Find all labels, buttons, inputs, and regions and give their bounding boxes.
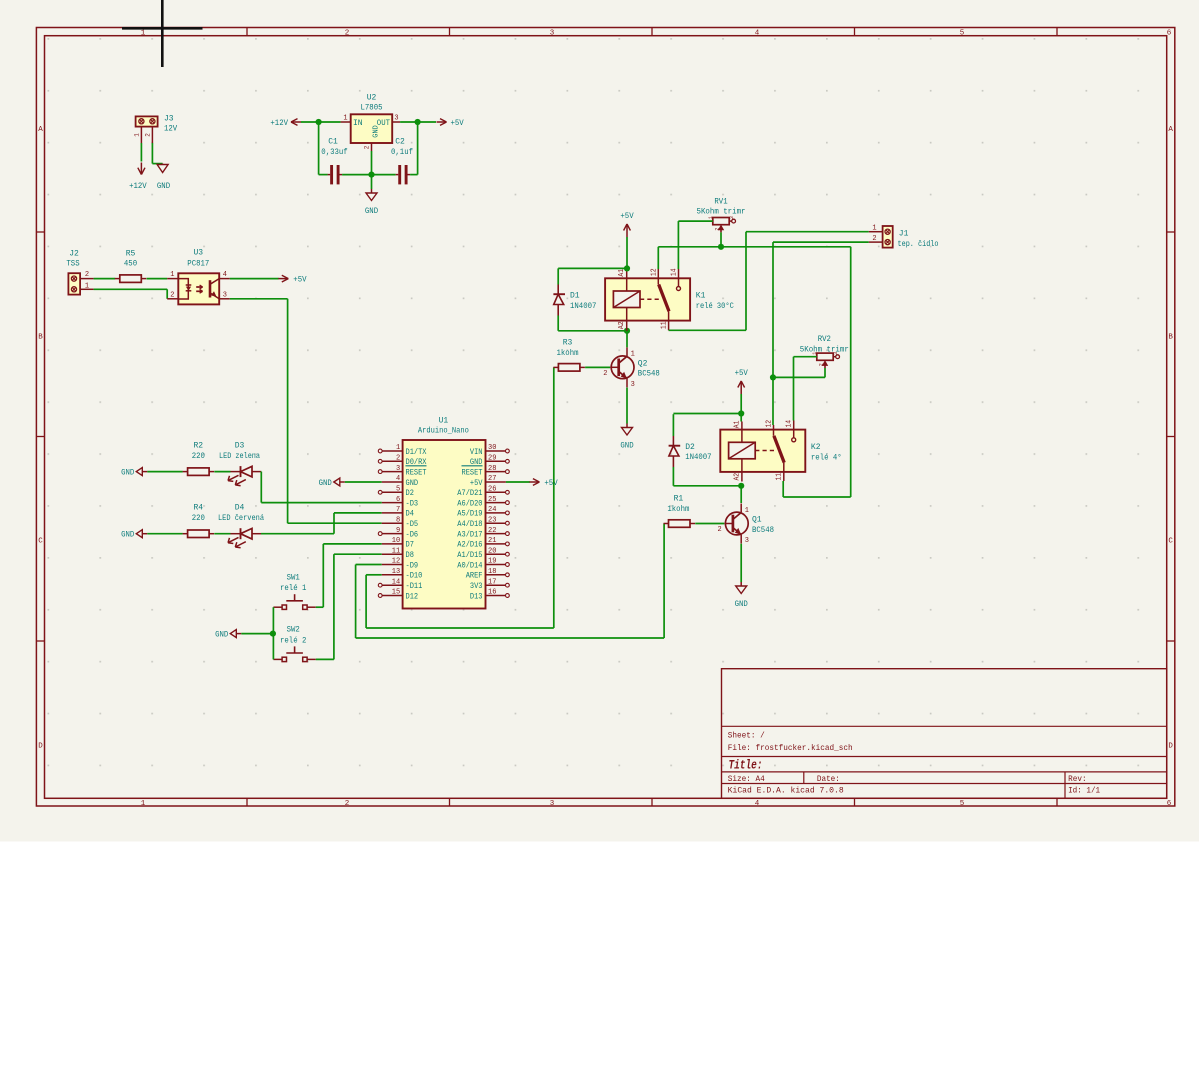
svg-text:D: D	[38, 743, 43, 751]
svg-text:3: 3	[394, 115, 398, 123]
U1 pin 11 D8	[382, 553, 403, 555]
svg-text:C1: C1	[328, 138, 338, 147]
wire	[147, 533, 182, 535]
wire	[371, 151, 373, 175]
junction	[718, 244, 724, 250]
wire	[557, 316, 559, 331]
svg-text:3: 3	[550, 29, 555, 37]
connector J3	[136, 116, 158, 126]
connector J2	[68, 273, 80, 294]
K1 pin 14	[678, 269, 680, 278]
wire	[506, 481, 530, 483]
svg-text:1: 1	[396, 444, 400, 452]
svg-text:+12V: +12V	[129, 182, 147, 191]
U3 pin 4	[219, 278, 230, 280]
wire	[365, 575, 367, 628]
svg-text:RV1: RV1	[714, 197, 727, 206]
wire	[782, 481, 784, 497]
svg-text:2: 2	[364, 146, 371, 150]
svg-text:-D10: -D10	[406, 572, 423, 581]
wire	[658, 246, 850, 248]
U1 pin 20 A1/D15	[506, 552, 510, 556]
U1 pin 29 GND	[506, 459, 510, 463]
junction	[738, 410, 744, 416]
U1 pin 21 A2/D16	[506, 542, 510, 546]
svg-text:11: 11	[776, 473, 784, 481]
svg-text:A2: A2	[618, 321, 626, 329]
svg-text:220: 220	[192, 514, 205, 523]
svg-text:2: 2	[170, 291, 174, 299]
LED D4	[240, 528, 242, 539]
trimmer RV1	[713, 218, 729, 225]
wire	[673, 485, 741, 487]
wire	[626, 237, 628, 268]
svg-text:6: 6	[396, 496, 400, 504]
svg-text:PC817: PC817	[187, 260, 209, 269]
U3 pin 1	[167, 278, 178, 280]
wire	[316, 658, 334, 660]
wire	[366, 627, 554, 629]
wire	[783, 496, 851, 498]
wire	[695, 523, 724, 525]
wire	[322, 544, 324, 607]
K1 pin 11	[668, 321, 670, 331]
svg-text:Size: A4: Size: A4	[728, 775, 765, 784]
wire	[558, 267, 627, 269]
svg-text:2: 2	[714, 228, 721, 231]
wire	[745, 232, 747, 331]
svg-text:GND: GND	[319, 479, 332, 488]
wire	[272, 607, 274, 633]
svg-text:GND: GND	[215, 631, 228, 640]
svg-text:GND: GND	[372, 125, 380, 138]
K1 pin 12	[657, 269, 659, 278]
svg-text:1: 1	[631, 351, 635, 359]
resistor R4	[188, 530, 210, 538]
U1 pin 28 RESET	[506, 470, 510, 474]
K2 pin A2	[741, 472, 743, 482]
svg-text:BC548: BC548	[638, 370, 660, 379]
junction	[770, 374, 776, 380]
wire	[334, 512, 382, 514]
svg-text:11: 11	[392, 547, 400, 555]
wire	[366, 574, 382, 576]
svg-text:14: 14	[671, 268, 679, 276]
LED D3	[240, 466, 242, 477]
svg-text:1: 1	[872, 224, 876, 232]
svg-text:4: 4	[755, 29, 760, 37]
svg-text:1: 1	[141, 800, 146, 808]
U1 pin 4 GND	[382, 481, 403, 483]
wire	[214, 471, 230, 473]
U1 pin 18 AREF	[506, 573, 510, 577]
trimmer RV2	[817, 353, 833, 360]
U1 pin 19 A0/D14	[506, 563, 510, 567]
U1 pin 8 -D5	[382, 522, 403, 524]
power +12V (left arrow)	[291, 121, 301, 123]
svg-text:5: 5	[960, 29, 965, 37]
transistor Q1	[725, 512, 748, 535]
wire	[417, 122, 419, 175]
svg-text:30: 30	[488, 444, 496, 452]
K2 pin 14	[793, 421, 795, 430]
connector J1	[883, 226, 893, 248]
U1 pin 6 -D3	[382, 502, 403, 504]
svg-text:A0/D14: A0/D14	[457, 561, 482, 570]
svg-text:Q1: Q1	[752, 516, 762, 525]
svg-text:27: 27	[488, 475, 496, 483]
svg-text:GND: GND	[365, 207, 378, 216]
wire	[323, 543, 381, 545]
wire	[672, 414, 674, 436]
svg-text:A3/D17: A3/D17	[457, 530, 482, 539]
svg-text:GND: GND	[157, 182, 170, 191]
K1 pin A1	[626, 268, 628, 278]
svg-text:+5V: +5V	[735, 369, 748, 378]
wire	[657, 247, 659, 269]
switch SW1	[282, 605, 286, 609]
wire	[824, 368, 826, 377]
svg-text:12: 12	[650, 268, 658, 276]
wire	[230, 298, 288, 300]
svg-text:K1: K1	[696, 292, 706, 301]
U1 pin 17 3V3	[506, 583, 510, 587]
svg-text:VIN: VIN	[470, 448, 483, 457]
wire	[333, 513, 335, 534]
wire	[147, 471, 182, 473]
junction	[738, 483, 744, 489]
svg-text:GND: GND	[121, 469, 134, 478]
wire	[773, 376, 825, 378]
junction	[316, 119, 322, 125]
wire	[342, 174, 371, 176]
U1 pin 30 VIN	[506, 449, 510, 453]
svg-text:1kohm: 1kohm	[557, 349, 579, 358]
svg-text:26: 26	[488, 486, 496, 494]
U1 pin 13 -D10	[382, 574, 403, 576]
wire	[626, 388, 628, 424]
junction	[368, 172, 374, 178]
U1 pin 3 RESET	[378, 470, 382, 474]
svg-text:2: 2	[396, 455, 400, 463]
svg-text:3: 3	[223, 291, 227, 299]
wire	[678, 220, 712, 222]
svg-text:0,33uf: 0,33uf	[321, 148, 348, 157]
svg-text:6: 6	[1167, 800, 1172, 808]
K2 pin A1	[741, 422, 743, 430]
wire	[94, 288, 168, 290]
contact	[793, 430, 795, 438]
wire	[333, 554, 335, 659]
wire	[147, 278, 168, 280]
svg-text:Sheet: /: Sheet: /	[728, 731, 765, 740]
svg-text:D: D	[1168, 743, 1173, 751]
U1 pin 9 -D6	[378, 532, 382, 536]
svg-text:3: 3	[396, 465, 400, 473]
U3 pin 2	[167, 298, 178, 300]
wire	[287, 299, 289, 523]
border column ticks	[246, 28, 248, 36]
svg-text:1: 1	[170, 271, 174, 279]
wire	[740, 414, 742, 422]
svg-text:A: A	[1168, 126, 1173, 134]
wire	[794, 356, 817, 358]
svg-text:Q2: Q2	[638, 359, 648, 368]
J3 pin 2	[151, 127, 153, 143]
wire	[558, 330, 627, 332]
svg-text:12: 12	[392, 558, 400, 566]
power +5V (right arrow)	[437, 121, 447, 123]
svg-text:21: 21	[488, 537, 496, 545]
svg-text:relé 4°: relé 4°	[811, 453, 842, 462]
svg-text:C: C	[1168, 538, 1173, 546]
svg-text:13: 13	[392, 568, 400, 576]
power GND under Q2	[626, 424, 628, 428]
svg-text:4: 4	[223, 271, 227, 279]
svg-text:U1: U1	[439, 416, 449, 425]
U1 pin 5 D2	[378, 490, 382, 494]
svg-text:BC548: BC548	[752, 526, 774, 535]
svg-text:1: 1	[133, 133, 140, 137]
wire	[214, 533, 230, 535]
svg-text:C2: C2	[395, 138, 405, 147]
svg-text:B: B	[1168, 334, 1173, 342]
svg-text:relé 2: relé 2	[280, 636, 307, 645]
wire	[140, 143, 142, 162]
wire	[773, 241, 869, 243]
svg-text:RESET: RESET	[406, 468, 427, 477]
wire	[400, 121, 436, 123]
svg-text:GND: GND	[620, 442, 633, 451]
wire	[334, 553, 382, 555]
wire	[260, 471, 262, 473]
wire	[241, 633, 273, 635]
svg-text:A1/D15: A1/D15	[457, 551, 482, 560]
switch SW2	[282, 657, 286, 661]
J3 pin 1	[140, 127, 142, 143]
svg-text:24: 24	[488, 506, 496, 514]
svg-text:2: 2	[872, 235, 876, 243]
svg-text:D1: D1	[570, 292, 580, 301]
svg-text:D4: D4	[406, 510, 415, 519]
svg-text:AREF: AREF	[466, 572, 483, 581]
wire	[663, 524, 665, 639]
svg-text:B: B	[38, 334, 43, 342]
wire	[356, 637, 664, 639]
K2 pin 12	[773, 425, 775, 430]
svg-text:R2: R2	[193, 441, 203, 450]
U1 pin 23 A4/D18	[506, 521, 510, 525]
svg-text:D2: D2	[406, 489, 415, 498]
svg-text:LED červená: LED červená	[218, 514, 264, 523]
svg-text:1: 1	[85, 283, 89, 291]
J2 pin 2	[80, 278, 94, 280]
svg-text:+5V: +5V	[544, 479, 557, 488]
optocoupler U3	[178, 273, 219, 304]
wire	[669, 329, 746, 331]
wire	[345, 481, 382, 483]
wire	[850, 247, 852, 497]
svg-text:23: 23	[488, 516, 496, 524]
U1 pin 10 D7	[382, 543, 403, 545]
wire	[356, 564, 382, 566]
svg-text:SW2: SW2	[287, 626, 300, 635]
U1 pin 7 D4	[382, 512, 403, 514]
svg-text:A4/D18: A4/D18	[457, 520, 482, 529]
svg-text:-D3: -D3	[406, 499, 419, 508]
wire	[772, 377, 774, 425]
J1 pin 1	[869, 231, 883, 233]
svg-text:3: 3	[550, 800, 555, 808]
resistor R3	[558, 364, 580, 372]
power +12V (down arrow)	[140, 163, 142, 175]
svg-text:Arduino_Nano: Arduino_Nano	[418, 427, 469, 436]
svg-text:SW1: SW1	[287, 574, 300, 583]
svg-text:J2: J2	[69, 249, 79, 258]
svg-text:16: 16	[488, 589, 496, 597]
svg-text:File: frostfucker.kicad_sch: File: frostfucker.kicad_sch	[728, 744, 853, 753]
U1 pin 25 A6/D20	[506, 501, 510, 505]
svg-text:GND: GND	[406, 479, 419, 488]
svg-text:1: 1	[745, 507, 749, 515]
wire	[319, 174, 328, 176]
svg-text:R5: R5	[126, 249, 136, 258]
power GND arrow at SW1/SW2	[230, 630, 236, 638]
wire	[793, 357, 795, 421]
wire	[557, 268, 559, 284]
wire	[740, 486, 742, 503]
U1 pin 1 D1/TX	[378, 449, 382, 453]
U3 internal LED	[178, 279, 188, 299]
svg-text:5: 5	[396, 486, 400, 494]
svg-text:5Kohm trimr: 5Kohm trimr	[800, 345, 849, 354]
svg-text:-D9: -D9	[406, 561, 419, 570]
U1 pin 27 +5V	[486, 481, 506, 483]
svg-text:TSS: TSS	[66, 260, 79, 269]
U1 pin 15 D12	[378, 594, 382, 598]
svg-text:2: 2	[603, 370, 607, 378]
svg-text:GND: GND	[121, 531, 134, 540]
svg-text:C: C	[38, 538, 43, 546]
U3 pin 3	[219, 298, 230, 300]
svg-text:9: 9	[396, 527, 400, 535]
svg-text:19: 19	[488, 558, 496, 566]
wire	[261, 533, 334, 535]
svg-text:+5V: +5V	[620, 212, 633, 221]
svg-text:6: 6	[1167, 29, 1172, 37]
svg-text:GND: GND	[735, 600, 748, 609]
wire	[260, 472, 262, 503]
U3 phototransistor	[209, 280, 212, 297]
capacitor C1	[330, 165, 333, 184]
svg-text:2: 2	[345, 800, 350, 808]
wire	[94, 278, 116, 280]
svg-text:R3: R3	[563, 338, 573, 347]
wire	[288, 522, 382, 524]
border row ticks	[36, 231, 44, 233]
svg-text:2: 2	[345, 29, 350, 37]
svg-text:+5V: +5V	[293, 276, 306, 285]
junction	[624, 328, 630, 334]
svg-text:A2: A2	[733, 473, 741, 481]
U1 pin 22 A3/D17	[506, 532, 510, 536]
svg-text:D13: D13	[470, 592, 483, 601]
svg-text:29: 29	[488, 455, 496, 463]
svg-text:2: 2	[818, 363, 825, 366]
svg-text:D7: D7	[406, 541, 415, 550]
svg-text:LED zelena: LED zelena	[219, 452, 260, 461]
wire	[355, 565, 357, 639]
wire	[410, 174, 418, 176]
svg-text:Date:: Date:	[817, 775, 840, 784]
wire	[230, 278, 279, 280]
svg-text:22: 22	[488, 527, 496, 535]
svg-text:4: 4	[755, 800, 760, 808]
svg-text:14: 14	[392, 578, 400, 586]
svg-text:3V3: 3V3	[470, 582, 483, 591]
svg-text:3: 3	[745, 537, 749, 545]
resistor R2	[188, 468, 210, 476]
contact	[678, 278, 680, 286]
svg-text:J1: J1	[899, 229, 909, 238]
svg-text:+5V: +5V	[451, 119, 464, 128]
svg-text:Title:: Title:	[729, 759, 763, 773]
svg-text:U3: U3	[193, 249, 203, 258]
svg-text:0,1uf: 0,1uf	[391, 148, 413, 157]
schematic sheet background	[0, 0, 1199, 842]
svg-text:A: A	[38, 126, 43, 134]
U2 pin 2 GND	[371, 143, 373, 151]
J1 pin 2	[869, 241, 883, 243]
U3 emission arrows	[196, 286, 202, 288]
svg-text:J3: J3	[164, 115, 174, 124]
svg-text:220: 220	[192, 452, 205, 461]
svg-text:11: 11	[660, 321, 668, 329]
svg-text:2: 2	[717, 526, 721, 534]
svg-text:D3: D3	[235, 441, 245, 450]
wire	[318, 122, 320, 175]
wire	[720, 232, 722, 246]
svg-text:A6/D20: A6/D20	[457, 499, 482, 508]
wire	[626, 331, 628, 347]
wire	[772, 242, 774, 377]
power GND at J3	[162, 163, 164, 166]
cursor crosshair	[161, 0, 164, 67]
K1 pin A2	[626, 321, 628, 331]
wire	[371, 175, 373, 189]
svg-text:A5/D19: A5/D19	[457, 510, 482, 519]
wire	[740, 544, 742, 582]
svg-text:+5V: +5V	[470, 479, 483, 488]
svg-text:R1: R1	[674, 494, 684, 503]
wire	[746, 231, 869, 233]
wire	[740, 394, 742, 414]
power GND arrow at R2	[136, 468, 142, 476]
svg-text:D4: D4	[235, 504, 245, 513]
svg-text:K2: K2	[811, 443, 821, 452]
svg-text:A7/D21: A7/D21	[457, 489, 482, 498]
wire	[261, 502, 381, 504]
svg-text:D12: D12	[406, 592, 419, 601]
svg-text:1N4007: 1N4007	[570, 302, 597, 311]
wire	[166, 289, 168, 299]
relay K2	[720, 430, 805, 472]
wire	[372, 174, 396, 176]
svg-text:25: 25	[488, 496, 496, 504]
svg-text:D8: D8	[406, 551, 415, 560]
svg-text:2: 2	[144, 133, 151, 137]
svg-text:4: 4	[396, 475, 400, 483]
